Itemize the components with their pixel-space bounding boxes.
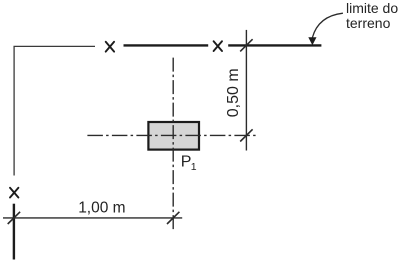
svg-text:P: P — [181, 153, 192, 170]
svg-text:1: 1 — [191, 161, 197, 173]
svg-text:limite do: limite do — [346, 0, 398, 16]
svg-text:0,50 m: 0,50 m — [225, 68, 242, 117]
svg-text:terreno: terreno — [346, 15, 391, 31]
svg-text:1,00 m: 1,00 m — [78, 199, 125, 216]
